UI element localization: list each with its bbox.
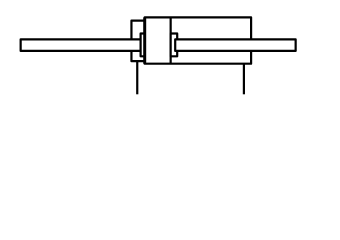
piston rod left (double-ended rod, left side) [21,39,141,51]
port line left [136,61,138,94]
piston rod right (double-ended rod, right side) [175,39,295,51]
cylinder barrel [145,17,251,63]
piston plate left (against left end wall) [143,17,146,63]
port line right [243,64,245,95]
cushion boss left [141,34,145,57]
cylinder left end-cap flange [131,21,144,62]
cushion boss right [171,34,178,57]
piston plate [170,17,172,63]
